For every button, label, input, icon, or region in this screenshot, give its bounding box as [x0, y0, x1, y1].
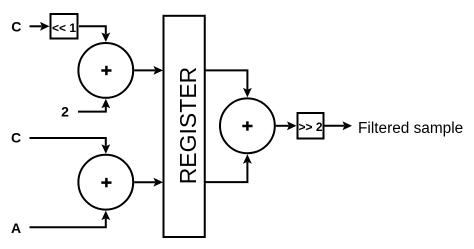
svg-text:C: C — [11, 130, 21, 146]
svg-text:C: C — [11, 19, 21, 35]
svg-text:A: A — [11, 220, 21, 236]
svg-text:Filtered sample: Filtered sample — [358, 120, 463, 137]
svg-text:2: 2 — [61, 104, 69, 120]
svg-text:<< 1: << 1 — [52, 21, 76, 35]
svg-text:REGISTER: REGISTER — [175, 67, 201, 185]
svg-text:>> 2: >> 2 — [298, 120, 322, 134]
